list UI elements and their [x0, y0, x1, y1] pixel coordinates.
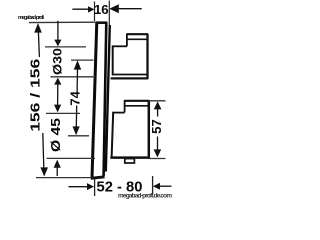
svg-text:16: 16 [94, 2, 109, 17]
dim 57: top ext line [149, 100, 166, 102]
dim Ø45: top arrow [54, 105, 61, 113]
dim Ø30: line top [57, 21, 59, 41]
ext line knob2 center [68, 135, 89, 137]
ext line knob2 bottom [47, 157, 96, 159]
dim Ø30: top arrow [54, 40, 61, 47]
dim 52-80: right ext line [152, 176, 154, 195]
bottom knob cap [125, 100, 150, 113]
wall plate right (front) edge [104, 22, 107, 176]
dim 156: bottom extension line [36, 177, 92, 179]
top knob cap [127, 33, 148, 46]
ext line knob2 top [46, 112, 80, 114]
dim 156: top extension line [29, 21, 95, 23]
ext line knob1 center [71, 59, 94, 61]
dim 57: bottom ext line [149, 158, 166, 160]
dim Ø45: bottom arrow [54, 160, 61, 168]
dim 52-80: right arrow [153, 183, 160, 190]
bottom knob safety tab [125, 159, 135, 163]
svg-text:74: 74 [67, 90, 82, 105]
dim 156: top arrow [34, 23, 42, 32]
svg-text:156 / 156: 156 / 156 [27, 59, 42, 132]
svg-text:Ø30: Ø30 [51, 48, 65, 75]
dim 156: line lower [43, 133, 44, 168]
svg-text:megabad-profi: megabad-profi [18, 15, 44, 21]
dim 57: line upper [157, 109, 159, 117]
wall plate left edge [92, 22, 97, 178]
dim 156: line upper [38, 32, 39, 57]
shared dim line between Ø30 and Ø45 [57, 84, 59, 105]
bottom knob body [110, 100, 149, 158]
dim 74: bottom arrow [73, 126, 80, 135]
svg-text:Ø 45: Ø 45 [48, 118, 63, 152]
ext line knob1 bottom [51, 76, 96, 78]
dim Ø30: bottom arrow [54, 78, 61, 85]
dim 52-80: left arrow [69, 186, 88, 188]
dim 57: top arrow [154, 101, 162, 109]
svg-text:57: 57 [149, 119, 164, 134]
dim 156: bottom arrow [40, 167, 48, 176]
dim 74: line upper [76, 69, 78, 91]
dim 57: line lower [157, 137, 159, 150]
ext line knob1 top [45, 46, 86, 48]
dim 16: left arrow [72, 8, 88, 10]
dim 16: left extension line [94, 2, 96, 22]
dim 74: line lower [75, 106, 77, 127]
wall plate top edge [95, 21, 107, 24]
top knob body [111, 34, 149, 79]
dim Ø45: line bottom [56, 167, 58, 176]
wall plate bottom edge [91, 177, 105, 179]
dim 57: bottom arrow [154, 149, 162, 157]
dim 74: top arrow [74, 60, 81, 69]
dim 16: right arrow [109, 4, 119, 13]
svg-text:megabad-profi.de.com: megabad-profi.de.com [118, 193, 172, 200]
dim 16: right extension line [108, 1, 110, 26]
sleeve line (second front line) [106, 25, 110, 172]
dim 52-80: left ext line [94, 179, 96, 196]
